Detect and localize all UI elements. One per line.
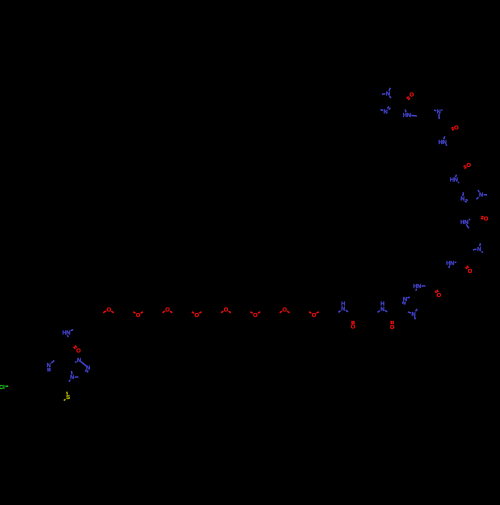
wire O1-pC1a xyxy=(111,311,113,313)
wire fN1-fC2 xyxy=(408,312,411,313)
wire dN1-dCH3 xyxy=(484,194,487,196)
svg-text:HN: HN xyxy=(438,140,446,146)
wire fN1-fC5 xyxy=(416,309,418,311)
svg-text:S: S xyxy=(66,395,70,401)
wire tE-tD xyxy=(75,376,79,378)
svg-text:N: N xyxy=(341,307,345,313)
svg-text:N: N xyxy=(411,312,415,318)
wire dNH-dCO xyxy=(469,218,470,221)
wire jO-jCO xyxy=(74,347,76,349)
wire bN1-bC5 xyxy=(434,109,436,112)
svg-text:O: O xyxy=(76,349,81,355)
svg-text:N: N xyxy=(386,91,390,97)
wire aO-aCO xyxy=(407,97,409,99)
wire dN3-dC4 xyxy=(462,192,465,196)
wire jN5-jC6 xyxy=(47,368,49,372)
wire dN1-dC2 xyxy=(476,197,478,199)
wire aN3-aC4 xyxy=(380,110,383,111)
wire O6-pC5b xyxy=(250,312,252,314)
svg-text:H: H xyxy=(380,302,384,308)
wire O6-pC6a xyxy=(258,312,260,314)
svg-text:Cl: Cl xyxy=(0,385,5,391)
wire S1-sC2 xyxy=(64,399,66,400)
wire cO2-cCO2 xyxy=(390,321,392,324)
svg-text:O: O xyxy=(466,163,471,169)
wire cO1-cCO1 xyxy=(351,321,353,324)
svg-text:N: N xyxy=(77,358,81,364)
svg-text:N: N xyxy=(70,375,74,381)
wire dN1-dC5 xyxy=(478,190,479,192)
wire tC-tD xyxy=(84,370,87,372)
svg-text:N: N xyxy=(461,197,465,203)
svg-text:O: O xyxy=(437,293,442,299)
wire O2-pC2a xyxy=(141,312,143,314)
svg-text:HN: HN xyxy=(403,113,411,119)
wire eN1-eNMe xyxy=(479,243,482,246)
wire cO3-cCO3 xyxy=(464,167,466,168)
wire fNH-fC4 xyxy=(415,289,418,291)
wire eNH-eCO xyxy=(455,261,457,263)
wire cN1-cCO1 xyxy=(346,310,348,312)
wire Cl1-p1 xyxy=(5,385,8,387)
wire fO-fCO xyxy=(437,290,438,292)
wire aNH-aCH2 xyxy=(411,114,417,117)
wire tB-tC xyxy=(81,362,86,366)
wire cN1-cC2 xyxy=(338,311,340,313)
svg-text:O: O xyxy=(312,313,317,319)
svg-text:O: O xyxy=(390,325,395,331)
wire cO1-cCO1 xyxy=(353,321,355,324)
svg-text:O: O xyxy=(253,313,258,319)
svg-text:O: O xyxy=(351,325,356,331)
wire cN2-cC4 xyxy=(378,311,380,313)
wire eO-eCO xyxy=(466,267,468,269)
wire fO-fCO xyxy=(435,291,436,293)
wire aN1-aCH3 xyxy=(389,88,390,91)
svg-text:HN: HN xyxy=(413,284,421,290)
wire fN3-fC2 xyxy=(404,302,407,305)
wire aN1-aC2 xyxy=(390,96,391,98)
wire fNH-fCO xyxy=(422,285,426,287)
wire eNH-eCH2b xyxy=(448,265,451,268)
wire cNH3-cCO3 xyxy=(455,175,456,177)
svg-text:H: H xyxy=(341,301,345,307)
wire aN3-aC2 xyxy=(389,108,391,110)
svg-text:N: N xyxy=(86,365,90,371)
wire O7-pC7a xyxy=(287,311,289,313)
wire O7-pC6b xyxy=(280,311,282,313)
svg-text:O: O xyxy=(468,269,473,275)
wire fN3-fC2 xyxy=(402,301,405,304)
svg-text:N: N xyxy=(384,110,388,116)
wire bN1-bC2 xyxy=(438,114,440,119)
wire O4-pC3b xyxy=(192,312,194,314)
svg-text:O: O xyxy=(484,216,489,222)
wire eN1-eC5 xyxy=(473,248,477,251)
wire O1-pegC0 xyxy=(103,311,106,313)
wire dN3-dC2 xyxy=(465,201,467,202)
svg-text:O: O xyxy=(282,307,287,313)
wire S1-thC xyxy=(66,392,69,395)
wire O5-pC4b xyxy=(221,311,223,313)
wire fN1-fCH3 xyxy=(414,316,415,319)
wire fN3-fC4 xyxy=(407,296,409,299)
wire O5-pC5a xyxy=(229,311,231,313)
svg-text:N: N xyxy=(47,363,51,369)
wire cNH3-dC4 xyxy=(458,181,459,184)
svg-text:HN: HN xyxy=(62,331,70,337)
wire bN1-bMe xyxy=(441,109,442,112)
svg-text:HN: HN xyxy=(460,220,468,226)
svg-text:HN: HN xyxy=(446,261,454,267)
wire bNH-bCH2 xyxy=(446,144,447,145)
svg-text:HN: HN xyxy=(450,178,458,184)
wire aN1-aC5 xyxy=(382,93,385,96)
wire dO-dCO xyxy=(481,216,483,218)
svg-text:O: O xyxy=(136,313,141,319)
svg-text:O: O xyxy=(165,307,170,313)
svg-text:N: N xyxy=(380,307,384,313)
wire jN5-jCH xyxy=(51,361,54,364)
wire aO-aCO xyxy=(408,98,410,100)
wire tE-tA xyxy=(71,371,73,375)
wire dO-dCO xyxy=(481,217,484,219)
wire bO-bCO xyxy=(451,127,453,130)
wire jNH-jPh2 xyxy=(71,330,74,331)
wire tB-tA xyxy=(75,361,77,364)
wire aN3-aC2 xyxy=(387,107,389,109)
wire jN5-jC6 xyxy=(49,368,51,372)
wire cN2-cCO2 xyxy=(385,310,387,312)
svg-text:O: O xyxy=(454,126,459,132)
wire dN3-dC2 xyxy=(466,199,468,200)
wire tE-thC xyxy=(69,380,71,382)
wire O3-pC3a xyxy=(170,311,172,313)
svg-text:O: O xyxy=(409,93,414,99)
svg-text:N: N xyxy=(437,109,441,115)
svg-text:N: N xyxy=(403,297,407,303)
wire aNH-aCO xyxy=(405,110,406,113)
svg-text:N: N xyxy=(477,247,481,253)
wire cO2-cCO2 xyxy=(392,321,394,324)
wire O4-pC4a xyxy=(199,312,201,314)
wire O8-cC1 xyxy=(316,312,318,314)
wire O8-pC7b xyxy=(309,312,311,314)
svg-text:O: O xyxy=(107,307,112,313)
wire cO3-cCO3 xyxy=(464,166,466,167)
wire bNH-bCO xyxy=(444,136,445,139)
wire bO-bCO xyxy=(452,128,454,131)
wire eO-eCO xyxy=(467,266,469,268)
wire jNH-jCO xyxy=(66,335,69,337)
wire tC-tD xyxy=(86,370,89,372)
svg-text:N: N xyxy=(479,193,483,199)
wire O2-pC1b xyxy=(133,312,135,314)
wire O3-pC2b xyxy=(163,311,165,313)
wire jO-jCO xyxy=(75,346,77,348)
svg-text:O: O xyxy=(224,307,229,313)
wire eN1-eC2b xyxy=(482,251,483,252)
svg-text:O: O xyxy=(194,313,199,319)
wire dNH-dCH2 xyxy=(466,224,469,228)
